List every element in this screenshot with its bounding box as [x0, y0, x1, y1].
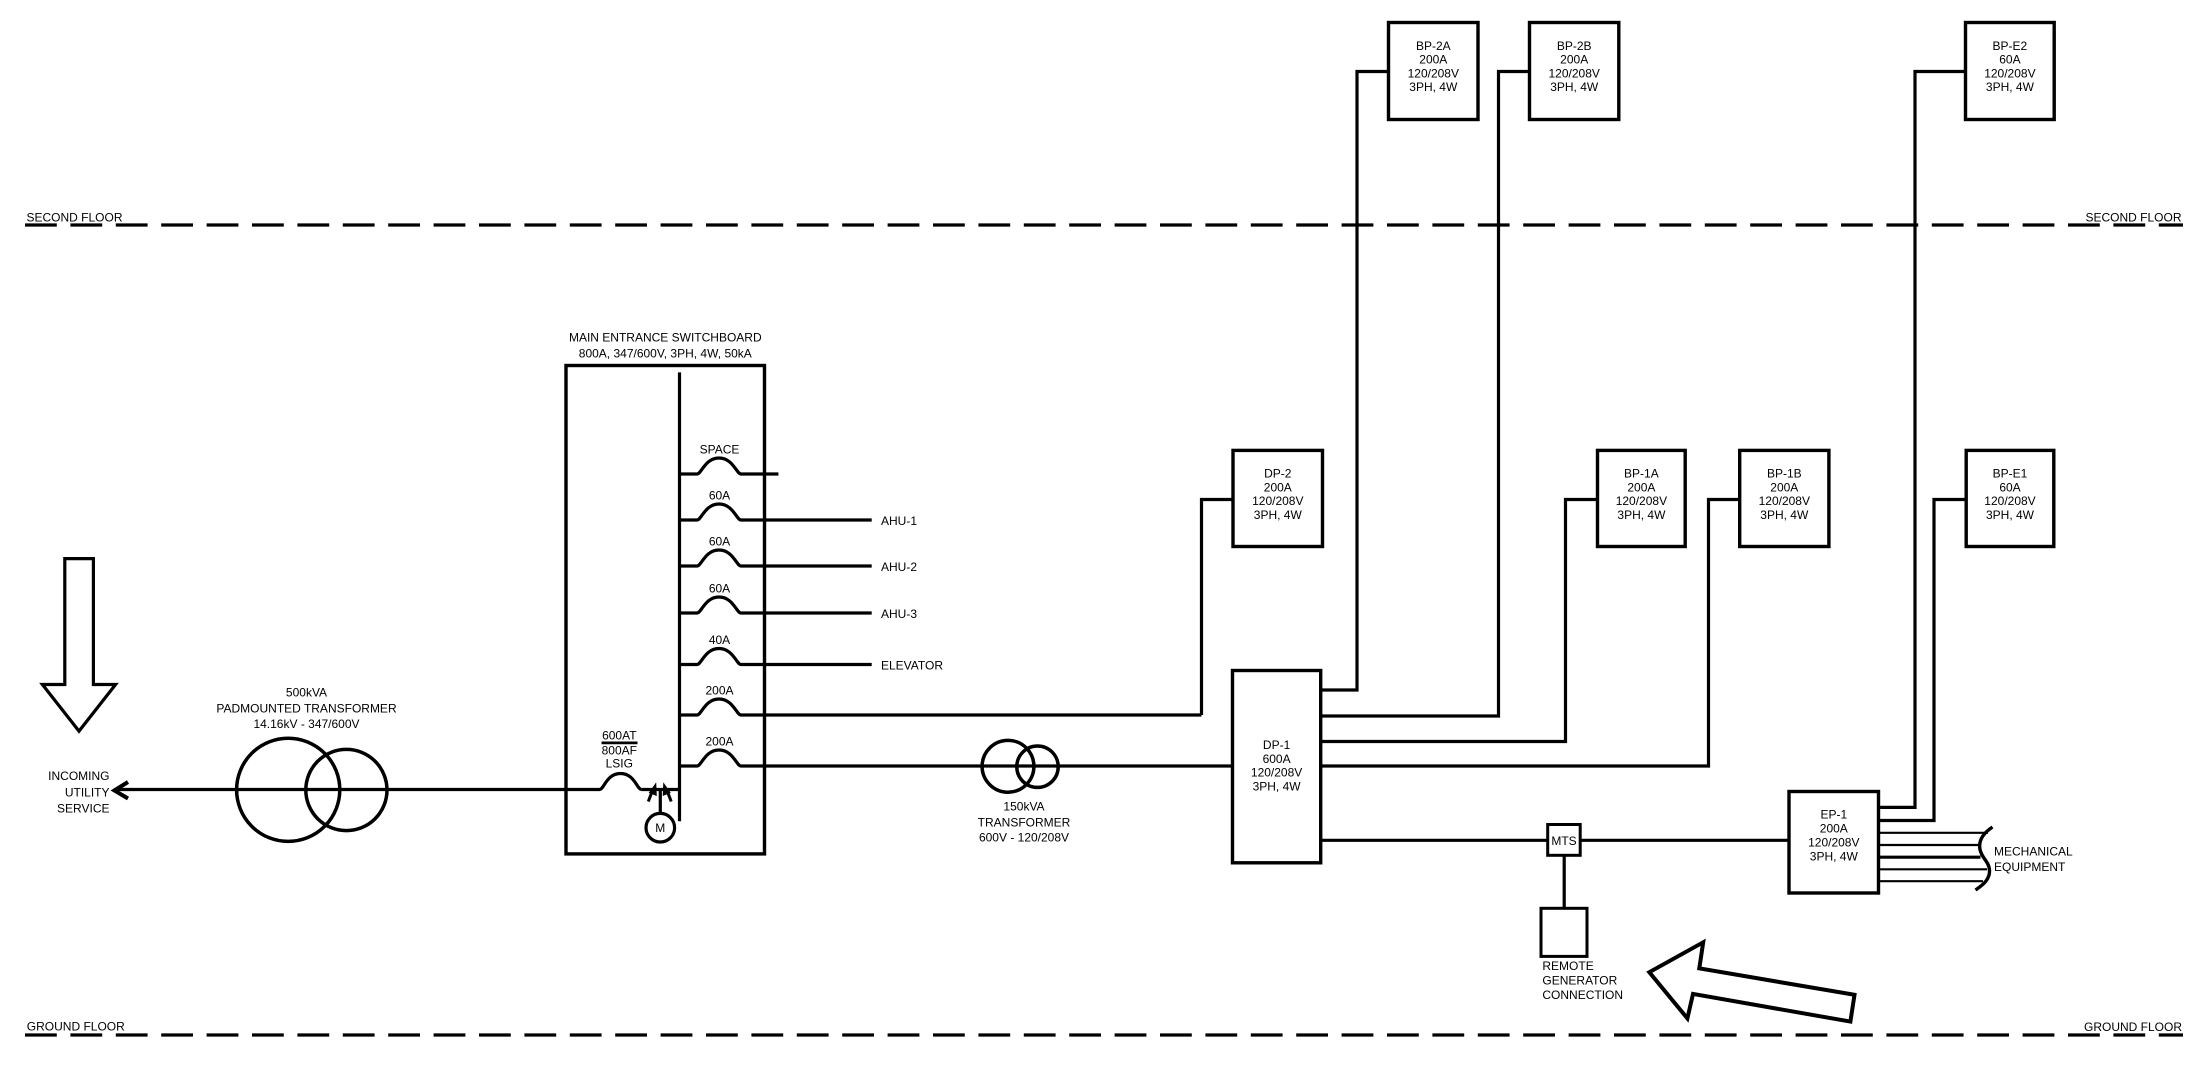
- breaker 60A AHU-1: [680, 518, 698, 521]
- panel box BP-1A: [1598, 450, 1686, 546]
- svg-text:BP-1B: BP-1B: [1767, 467, 1802, 481]
- 150kVA transformer: [982, 740, 1034, 792]
- svg-text:M: M: [655, 821, 665, 835]
- svg-text:GENERATOR: GENERATOR: [1542, 973, 1617, 987]
- svg-text:GROUND FLOOR: GROUND FLOOR: [27, 1019, 125, 1033]
- svg-text:BP-2A: BP-2A: [1416, 39, 1451, 53]
- svg-text:120/208V: 120/208V: [1251, 766, 1302, 780]
- svg-text:200A: 200A: [1560, 53, 1588, 67]
- wire mech circuit 5: [1879, 880, 1984, 882]
- wire mech circuit 2: [1879, 844, 1981, 846]
- svg-text:120/208V: 120/208V: [1408, 66, 1459, 80]
- EP-1 box: [1789, 792, 1879, 894]
- wire EP-1 to BP-E2: [1879, 72, 1966, 808]
- svg-text:40A: 40A: [709, 633, 730, 647]
- svg-text:60A: 60A: [709, 489, 730, 503]
- wire DP-1 to BP-1A: [1321, 500, 1598, 742]
- svg-text:60A: 60A: [1999, 480, 2020, 494]
- svg-text:120/208V: 120/208V: [1984, 66, 2035, 80]
- svg-text:120/208V: 120/208V: [1808, 836, 1859, 850]
- svg-text:DP-2: DP-2: [1264, 467, 1292, 481]
- 500kVA transformer: [237, 738, 340, 841]
- svg-text:3PH, 4W: 3PH, 4W: [1986, 80, 2035, 94]
- svg-text:3PH, 4W: 3PH, 4W: [1409, 80, 1458, 94]
- svg-text:3PH, 4W: 3PH, 4W: [1986, 508, 2035, 522]
- svg-text:3PH, 4W: 3PH, 4W: [1253, 779, 1302, 793]
- svg-text:200A: 200A: [1627, 480, 1655, 494]
- panel box BP-1B: [1740, 450, 1829, 546]
- panel box BP-2A: [1389, 23, 1479, 120]
- main breaker 600AT: [600, 774, 642, 790]
- wire riser to DP-2: [1202, 500, 1234, 716]
- breaker 200A to 150kVA transformer: [680, 764, 698, 767]
- panel box BP-E2: [1966, 23, 2055, 120]
- svg-text:MECHANICAL: MECHANICAL: [1994, 845, 2073, 859]
- svg-text:REMOTE: REMOTE: [1542, 959, 1593, 973]
- svg-text:EP-1: EP-1: [1820, 807, 1847, 821]
- panel box DP-2: [1233, 450, 1323, 546]
- svg-text:AHU-3: AHU-3: [881, 607, 917, 621]
- svg-text:120/208V: 120/208V: [1759, 494, 1810, 508]
- svg-text:CONNECTION: CONNECTION: [1542, 988, 1623, 1002]
- meter stem: [659, 790, 662, 814]
- wire DP-1 to BP-2B: [1321, 72, 1530, 717]
- breaker SPACE: [680, 472, 698, 475]
- svg-text:120/208V: 120/208V: [1549, 66, 1600, 80]
- wire mech circuit 4: [1879, 868, 1988, 870]
- svg-text:200A: 200A: [1770, 480, 1798, 494]
- svg-text:PADMOUNTED TRANSFORMER: PADMOUNTED TRANSFORMER: [216, 702, 397, 716]
- svg-text:INCOMING: INCOMING: [48, 769, 109, 783]
- svg-text:500kVA: 500kVA: [286, 685, 327, 699]
- svg-text:AHU-2: AHU-2: [881, 560, 917, 574]
- switchboard bus: [678, 372, 681, 821]
- svg-text:60A: 60A: [1999, 53, 2020, 67]
- breaker 40A ELEVATOR: [680, 663, 698, 666]
- svg-text:SECOND FLOOR: SECOND FLOOR: [27, 210, 123, 224]
- svg-text:BP-2B: BP-2B: [1557, 39, 1592, 53]
- svg-text:SPACE: SPACE: [700, 443, 740, 457]
- svg-text:14.16kV - 347/600V: 14.16kV - 347/600V: [253, 717, 359, 731]
- svg-text:3PH, 4W: 3PH, 4W: [1254, 508, 1303, 522]
- wire mech circuit 3: [1879, 856, 1981, 859]
- svg-text:600A: 600A: [1263, 752, 1291, 766]
- wire DP-1 to BP-1B: [1321, 500, 1740, 767]
- svg-text:BP-E1: BP-E1: [1993, 467, 2028, 481]
- panel box BP-E1: [1966, 450, 2054, 546]
- svg-text:3PH, 4W: 3PH, 4W: [1810, 850, 1859, 864]
- svg-text:800A, 347/600V, 3PH, 4W, 50kA: 800A, 347/600V, 3PH, 4W, 50kA: [579, 347, 752, 361]
- svg-text:200A: 200A: [1264, 480, 1292, 494]
- service entrance arrow: [42, 559, 115, 732]
- svg-text:3PH, 4W: 3PH, 4W: [1617, 508, 1666, 522]
- svg-text:EQUIPMENT: EQUIPMENT: [1994, 860, 2066, 874]
- svg-text:SERVICE: SERVICE: [57, 802, 109, 816]
- breaker 200A to DP-2: [680, 713, 698, 716]
- main breaker label underline: [602, 742, 638, 745]
- svg-text:LSIG: LSIG: [606, 756, 633, 770]
- incoming service wire: [114, 788, 599, 791]
- svg-text:200A: 200A: [1419, 53, 1447, 67]
- MTS box: [1548, 825, 1581, 856]
- panel box BP-2B: [1530, 23, 1619, 120]
- svg-text:200A: 200A: [705, 684, 733, 698]
- svg-text:DP-1: DP-1: [1263, 738, 1291, 752]
- svg-text:200A: 200A: [1820, 821, 1848, 835]
- svg-text:120/208V: 120/208V: [1616, 494, 1667, 508]
- wire DP-1 to MTS: [1321, 839, 1548, 842]
- svg-text:3PH, 4W: 3PH, 4W: [1760, 508, 1809, 522]
- wire mech circuit 1: [1879, 832, 1989, 834]
- meter M circle: [646, 813, 675, 842]
- wire EP-1 to BP-E1: [1879, 500, 1967, 821]
- svg-text:120/208V: 120/208V: [1252, 494, 1303, 508]
- svg-text:3PH, 4W: 3PH, 4W: [1550, 80, 1599, 94]
- cable break squiggle: [1976, 827, 1993, 890]
- svg-text:MAIN ENTRANCE SWITCHBOARD: MAIN ENTRANCE SWITCHBOARD: [569, 331, 762, 345]
- utility meter arrows: [648, 790, 671, 802]
- svg-text:AHU-1: AHU-1: [881, 514, 917, 528]
- ground floor line: [25, 1033, 2183, 1036]
- breaker 60A AHU-3: [680, 611, 698, 614]
- svg-text:200A: 200A: [705, 735, 733, 749]
- DP-1 box: [1233, 671, 1321, 863]
- svg-text:ELEVATOR: ELEVATOR: [881, 659, 943, 673]
- second floor line: [25, 223, 2183, 226]
- svg-text:60A: 60A: [709, 582, 730, 596]
- svg-text:800AF: 800AF: [602, 743, 637, 757]
- svg-text:60A: 60A: [709, 535, 730, 549]
- svg-text:BP-1A: BP-1A: [1624, 467, 1659, 481]
- generator arrow: [1649, 942, 1854, 1021]
- svg-text:120/208V: 120/208V: [1984, 494, 2035, 508]
- svg-text:TRANSFORMER: TRANSFORMER: [978, 815, 1071, 829]
- svg-text:MTS: MTS: [1551, 834, 1576, 848]
- svg-text:150kVA: 150kVA: [1003, 800, 1044, 814]
- main switchboard box: [566, 366, 765, 854]
- breaker 60A AHU-2: [680, 564, 698, 567]
- generator wire: [1563, 855, 1566, 908]
- svg-text:600V - 120/208V: 600V - 120/208V: [979, 831, 1069, 845]
- incoming arrowhead: [114, 782, 128, 799]
- svg-text:GROUND FLOOR: GROUND FLOOR: [2084, 1020, 2182, 1034]
- remote generator connection box: [1541, 908, 1587, 956]
- mechanical equipment lines: [1879, 833, 1989, 881]
- svg-text:600AT: 600AT: [602, 729, 637, 743]
- wire DP-1 to BP-2A: [1321, 72, 1389, 691]
- svg-text:UTILITY: UTILITY: [65, 786, 110, 800]
- svg-text:SECOND FLOOR: SECOND FLOOR: [2085, 210, 2181, 224]
- svg-text:BP-E2: BP-E2: [1993, 39, 2028, 53]
- wire MTS to EP-1: [1580, 839, 1789, 842]
